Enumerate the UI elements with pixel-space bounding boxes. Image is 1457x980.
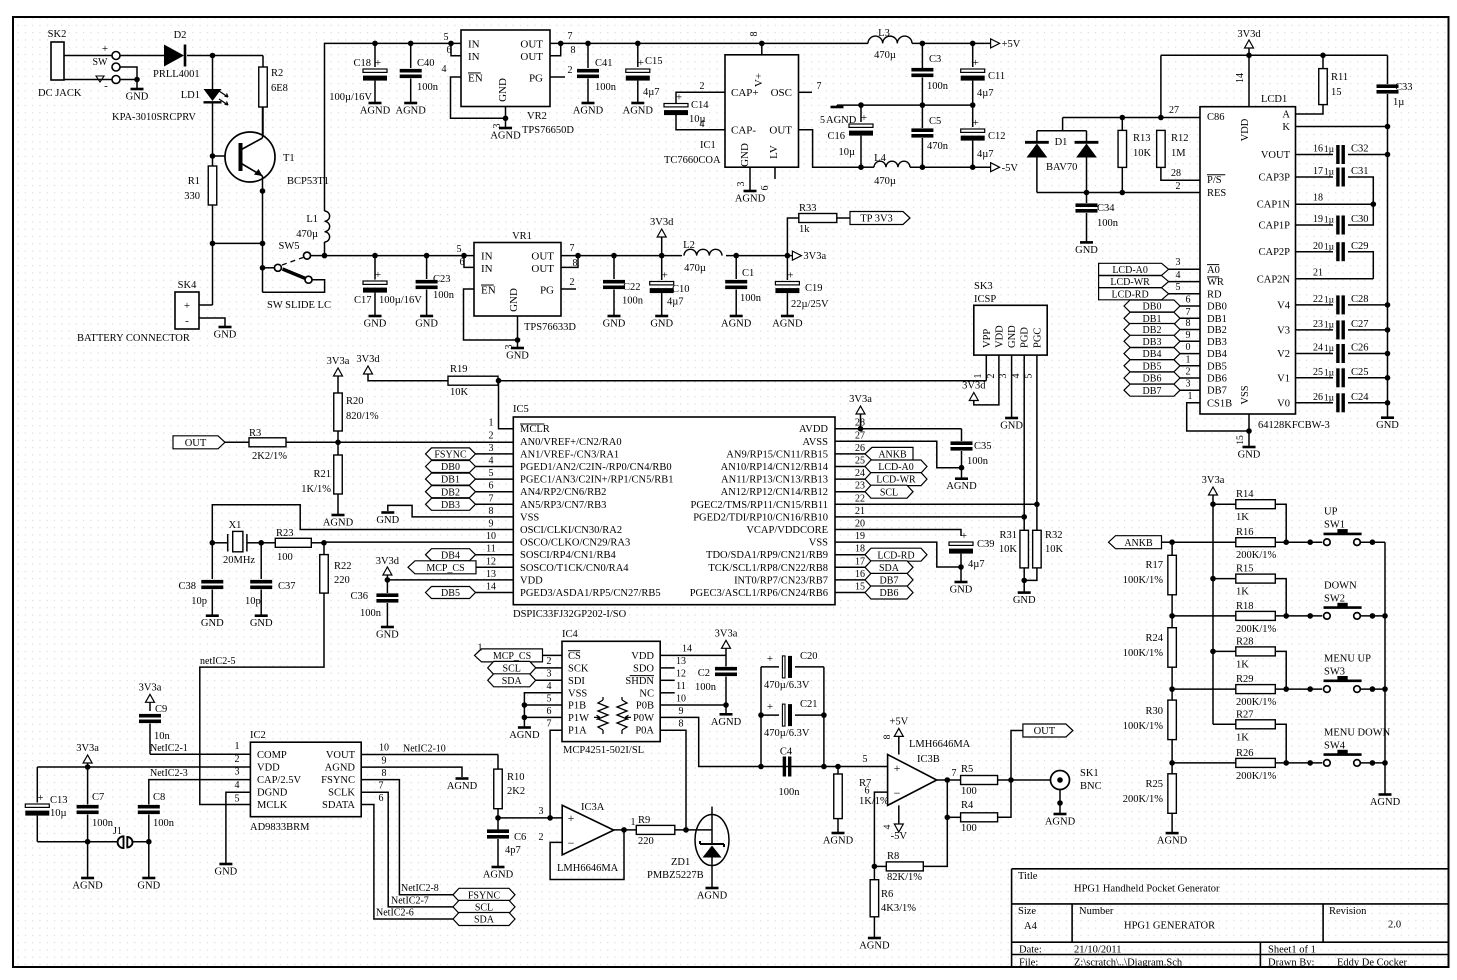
- svg-text:MCP_CS: MCP_CS: [426, 563, 464, 574]
- svg-text:R9: R9: [638, 815, 650, 826]
- svg-text:1µ: 1µ: [1324, 369, 1335, 379]
- wire SK3 pin1 VPP: [985, 355, 987, 381]
- svg-text:2: 2: [700, 81, 705, 92]
- svg-text:LCD-WR: LCD-WR: [1110, 277, 1150, 288]
- transistor T1 BCP53T1: [225, 132, 275, 182]
- svg-text:NetIC2-10: NetIC2-10: [403, 744, 446, 755]
- power flag 3V3a C9: [146, 694, 155, 702]
- svg-text:+: +: [973, 57, 979, 69]
- resistor R26 200K: [1172, 762, 1236, 764]
- svg-text:3V3a: 3V3a: [849, 394, 872, 405]
- svg-text:6: 6: [489, 481, 494, 492]
- svg-text:1K: 1K: [1236, 587, 1249, 598]
- ground C6: [492, 866, 505, 869]
- svg-text:10: 10: [379, 743, 389, 754]
- svg-text:1K/1%: 1K/1%: [301, 484, 331, 495]
- svg-text:2: 2: [568, 65, 573, 76]
- ground C22: [608, 315, 621, 318]
- wire SW4 to AGND rail: [1360, 762, 1385, 764]
- svg-text:8: 8: [1186, 318, 1191, 329]
- svg-text:R23: R23: [276, 528, 294, 539]
- resistor R14 1K: [1213, 503, 1236, 505]
- svg-text:26: 26: [855, 443, 865, 454]
- wire SW2 to AGND rail: [1360, 615, 1385, 617]
- svg-text:4µ7: 4µ7: [667, 297, 684, 308]
- svg-text:L1: L1: [306, 214, 318, 225]
- svg-text:AGND: AGND: [396, 106, 427, 117]
- svg-text:15: 15: [1236, 435, 1246, 445]
- svg-text:21: 21: [855, 506, 865, 517]
- wire VR1 GND pin3: [517, 316, 519, 348]
- capacitor C40: [408, 41, 414, 47]
- svg-text:COMP: COMP: [257, 750, 287, 761]
- svg-text:1: 1: [478, 643, 483, 654]
- flag ANKB keypad: [1109, 536, 1162, 549]
- jumper J1: [88, 841, 118, 843]
- resistor R11: [1319, 69, 1328, 105]
- ground IC4 VSS: [518, 726, 531, 729]
- svg-text:DB1: DB1: [441, 475, 460, 486]
- capacitor C34: [1086, 193, 1088, 204]
- svg-text:2: 2: [570, 277, 575, 288]
- op-amp IC3A LMH6646MA: [562, 805, 614, 855]
- svg-text:16: 16: [855, 569, 865, 580]
- svg-text:10K: 10K: [999, 544, 1018, 555]
- ground IC2 AGND: [456, 777, 469, 780]
- svg-text:DB4: DB4: [441, 550, 460, 561]
- flag SDA IC4: [488, 674, 536, 687]
- svg-text:0: 0: [1186, 342, 1191, 353]
- svg-text:18: 18: [1313, 193, 1323, 204]
- svg-text:C39: C39: [977, 539, 995, 550]
- resistor R12: [1157, 130, 1166, 167]
- svg-text:100K/1%: 100K/1%: [1123, 721, 1164, 732]
- ground C2: [720, 713, 733, 716]
- resistor R15 1K: [1210, 576, 1216, 582]
- svg-text:OUT: OUT: [769, 125, 792, 137]
- svg-text:File:: File:: [1019, 958, 1038, 969]
- svg-text:SCL: SCL: [503, 664, 521, 675]
- svg-text:TDO/SDA1/RP9/CN21/RB9: TDO/SDA1/RP9/CN21/RB9: [706, 550, 828, 561]
- svg-text:15: 15: [855, 582, 865, 593]
- ground: [219, 326, 232, 329]
- svg-text:C2: C2: [698, 668, 710, 679]
- wire VCAP pin20 to C39: [835, 530, 961, 537]
- flag DB1 to LCD: [1124, 312, 1180, 324]
- svg-text:7: 7: [817, 81, 822, 92]
- wire C31 C30 join: [1348, 177, 1373, 225]
- svg-text:P0B: P0B: [636, 701, 654, 712]
- capacitor C28: [1296, 304, 1334, 306]
- svg-text:OUT: OUT: [531, 263, 554, 275]
- ground R31 R32: [1018, 591, 1031, 594]
- wire VR1 IN pin6: [464, 256, 474, 268]
- svg-text:SDA: SDA: [474, 915, 495, 926]
- svg-text:V2: V2: [1277, 349, 1290, 360]
- flag DB0 IC5: [426, 461, 476, 473]
- svg-text:C32: C32: [1351, 144, 1369, 155]
- svg-text:10p: 10p: [245, 596, 261, 607]
- svg-text:3V3d: 3V3d: [962, 381, 986, 392]
- svg-text:AN1/VREF-/CN3/RA1: AN1/VREF-/CN3/RA1: [520, 449, 619, 460]
- svg-text:DOWN: DOWN: [1324, 580, 1357, 591]
- keypad 3V3a column: [1212, 504, 1214, 724]
- svg-text:MENU UP: MENU UP: [1324, 654, 1371, 665]
- svg-text:100n: 100n: [92, 818, 114, 829]
- svg-text:OUT: OUT: [531, 251, 554, 263]
- svg-text:LCD-RD: LCD-RD: [877, 550, 914, 561]
- svg-text:R16: R16: [1236, 527, 1254, 538]
- wire +3V input rail: [375, 42, 461, 44]
- svg-text:19: 19: [855, 531, 865, 542]
- svg-text:MCLK: MCLK: [257, 800, 288, 811]
- wire FSYNC pin8: [361, 780, 453, 895]
- switch SW3 MENU UP: [1307, 686, 1313, 692]
- svg-text:SW: SW: [93, 57, 109, 68]
- svg-text:VDD: VDD: [631, 651, 654, 662]
- svg-text:T1: T1: [283, 153, 295, 164]
- svg-text:9: 9: [382, 756, 387, 767]
- svg-text:ANKB: ANKB: [1124, 538, 1153, 549]
- svg-text:3: 3: [489, 443, 494, 454]
- svg-text:C20: C20: [800, 651, 818, 662]
- svg-text:10µ: 10µ: [838, 147, 855, 158]
- svg-text:330: 330: [184, 191, 200, 202]
- svg-text:C33: C33: [1395, 82, 1413, 93]
- svg-text:ZD1: ZD1: [671, 857, 690, 868]
- svg-text:AGND: AGND: [859, 941, 890, 952]
- ground C1: [730, 315, 743, 318]
- svg-text:23: 23: [855, 481, 865, 492]
- inductor L2: [684, 249, 722, 255]
- svg-text:14: 14: [682, 644, 692, 655]
- wire VDD pin14 to 3V3a: [660, 654, 726, 656]
- capacitor C5: [921, 105, 923, 128]
- resistor R23: [261, 542, 275, 544]
- capacitor C8: [146, 839, 152, 845]
- wire IC3B V- to -5V: [898, 805, 900, 824]
- svg-text:SCL: SCL: [880, 487, 898, 498]
- power flag +5V: [991, 39, 1000, 48]
- svg-text:4: 4: [442, 64, 447, 75]
- svg-text:MCP4251-502I/SL: MCP4251-502I/SL: [563, 745, 644, 756]
- svg-text:7: 7: [570, 243, 575, 254]
- wire SW3 to AGND rail: [1360, 688, 1385, 690]
- svg-text:C29: C29: [1351, 241, 1369, 252]
- svg-text:10p: 10p: [191, 596, 207, 607]
- svg-text:IC3B: IC3B: [917, 754, 940, 765]
- svg-text:GND: GND: [1000, 421, 1023, 432]
- ground R25: [1166, 832, 1179, 835]
- svg-text:9: 9: [679, 706, 684, 717]
- svg-text:LCD-A0: LCD-A0: [878, 462, 914, 473]
- svg-text:PGC: PGC: [1032, 328, 1043, 348]
- resistor R6: [873, 866, 875, 879]
- svg-text:+: +: [861, 112, 867, 124]
- svg-text:200K/1%: 200K/1%: [1236, 624, 1277, 635]
- wire SW contact to GND: [120, 67, 137, 80]
- svg-text:R2: R2: [271, 68, 283, 79]
- svg-text:4: 4: [235, 780, 240, 791]
- connector SK3 ICSP: [974, 305, 1047, 355]
- svg-text:3V3a: 3V3a: [76, 743, 99, 754]
- svg-text:GND: GND: [1376, 420, 1399, 431]
- svg-text:-5V: -5V: [891, 831, 908, 842]
- svg-text:R31: R31: [999, 530, 1017, 541]
- svg-text:100n: 100n: [360, 608, 382, 619]
- wire R31 R32 to GND: [1023, 568, 1025, 593]
- resistor R8: [874, 865, 886, 867]
- ground IC5 VSS: [381, 511, 394, 514]
- resistor R20: [334, 393, 343, 431]
- svg-text:SW3: SW3: [1324, 667, 1345, 678]
- svg-text:SDO: SDO: [633, 663, 654, 674]
- svg-text:25: 25: [1313, 367, 1323, 378]
- capacitor C25: [1296, 377, 1334, 379]
- flag OUT input: [173, 436, 225, 449]
- svg-text:20MHz: 20MHz: [223, 555, 255, 566]
- svg-text:6E8: 6E8: [271, 83, 288, 94]
- svg-text:AVDD: AVDD: [799, 424, 828, 435]
- ground LCD VSS: [1243, 446, 1256, 449]
- svg-text:IC3A: IC3A: [581, 802, 605, 813]
- svg-text:RD: RD: [1207, 289, 1222, 300]
- svg-text:IC1: IC1: [700, 140, 716, 151]
- svg-text:3V3d: 3V3d: [1237, 29, 1261, 40]
- svg-text:1: 1: [235, 741, 240, 752]
- svg-text:UP: UP: [1324, 507, 1338, 518]
- svg-text:IN: IN: [468, 39, 480, 51]
- svg-text:AGND: AGND: [323, 518, 354, 529]
- wire VR2 OUT pin8: [550, 43, 561, 55]
- svg-text:AGND: AGND: [1370, 797, 1401, 808]
- ground C19: [781, 315, 794, 318]
- svg-text:DC JACK: DC JACK: [38, 88, 82, 99]
- flag DB7 to LCD: [1124, 384, 1180, 396]
- svg-text:VR2: VR2: [527, 111, 547, 122]
- svg-text:VSS: VSS: [1240, 385, 1251, 404]
- capacitor C31: [1296, 176, 1334, 178]
- svg-text:13: 13: [676, 656, 686, 667]
- crystal X1 20MHz: [210, 540, 216, 546]
- svg-text:10K: 10K: [1045, 544, 1064, 555]
- power flag 3V3a VDD rail: [83, 755, 92, 763]
- svg-text:AGND: AGND: [1157, 836, 1188, 847]
- switch SW5 slide: [262, 243, 264, 292]
- svg-text:BCP53T1: BCP53T1: [287, 176, 329, 187]
- svg-text:+5V: +5V: [1002, 39, 1021, 50]
- flag DB2 to LCD: [1124, 324, 1180, 336]
- resistor R33: [787, 218, 798, 256]
- svg-text:C26: C26: [1351, 343, 1369, 354]
- svg-text:P0A: P0A: [635, 726, 654, 737]
- svg-text:OUT: OUT: [1034, 726, 1056, 737]
- wire SDO pin13 stub: [660, 667, 675, 669]
- svg-text:L2: L2: [683, 240, 695, 251]
- svg-text:DB6: DB6: [1207, 374, 1227, 385]
- svg-text:100: 100: [961, 823, 977, 834]
- wire SK1 shield to AGND: [1059, 790, 1061, 815]
- wire AVSS pin27: [835, 441, 962, 467]
- wire SK3 pin3 GND: [1011, 355, 1013, 418]
- wire IC1 LV pin6 stub: [774, 167, 776, 179]
- wire VSS pin8 to GND: [388, 505, 514, 517]
- svg-text:28: 28: [1171, 168, 1181, 179]
- wire IC3B output: [937, 779, 961, 781]
- svg-text:GND: GND: [126, 92, 149, 103]
- RES rail: [1037, 192, 1200, 194]
- svg-text:15: 15: [1331, 87, 1342, 98]
- svg-text:Size: Size: [1018, 906, 1036, 917]
- wire R14 to switch node: [1275, 504, 1286, 542]
- ground AGND C15: [631, 102, 644, 105]
- capacitor C33: [1387, 55, 1389, 84]
- jack switch arrow: [96, 76, 104, 82]
- capacitor C27: [1296, 329, 1334, 331]
- svg-text:100: 100: [277, 552, 293, 563]
- inductor L4: [874, 161, 910, 167]
- svg-text:A: A: [1282, 110, 1290, 121]
- svg-text:GND: GND: [215, 867, 238, 878]
- svg-text:SHDN: SHDN: [625, 676, 654, 687]
- svg-text:C25: C25: [1351, 367, 1369, 378]
- junction SW5 pivot: [260, 265, 266, 271]
- wire DC jack +: [64, 55, 112, 57]
- svg-text:10n: 10n: [154, 731, 171, 742]
- power flag 3V3a: [792, 251, 801, 260]
- flag SDA IC5: [865, 561, 913, 574]
- keypad AGND rail: [1384, 542, 1386, 794]
- svg-text:IC2: IC2: [250, 730, 266, 741]
- svg-text:3: 3: [736, 182, 747, 187]
- svg-text:VDD: VDD: [994, 325, 1005, 348]
- wire LED to base node: [212, 104, 214, 157]
- svg-text:1µ: 1µ: [1324, 242, 1335, 252]
- svg-text:11: 11: [486, 544, 496, 555]
- svg-text:R33: R33: [799, 203, 817, 214]
- svg-text:AGND: AGND: [490, 131, 521, 142]
- svg-text:C30: C30: [1351, 214, 1369, 225]
- svg-text:DB0: DB0: [1143, 302, 1162, 313]
- svg-text:10: 10: [676, 694, 686, 705]
- svg-text:C36: C36: [350, 591, 368, 602]
- svg-text:BNC: BNC: [1080, 781, 1102, 792]
- capacitor C16: [858, 102, 864, 108]
- svg-text:C11: C11: [988, 71, 1005, 82]
- svg-text:VDD: VDD: [257, 763, 280, 774]
- svg-text:CAP-: CAP-: [731, 125, 756, 137]
- svg-text:+: +: [894, 761, 901, 775]
- svg-text:AN4/RP2/CN6/RB2: AN4/RP2/CN6/RB2: [520, 487, 606, 498]
- wire output to R4 node: [946, 780, 948, 817]
- svg-text:PGEC2/TMS/RP11/CN15/RB11: PGEC2/TMS/RP11/CN15/RB11: [690, 500, 828, 511]
- svg-text:CAP2P: CAP2P: [1258, 247, 1290, 258]
- switch SW2 DOWN: [1307, 613, 1313, 619]
- svg-text:4: 4: [1176, 270, 1181, 281]
- svg-text:1µ: 1µ: [1393, 97, 1404, 108]
- svg-text:AN12/RP12/CN14/RB12: AN12/RP12/CN14/RB12: [721, 487, 828, 498]
- svg-text:+5V: +5V: [889, 716, 908, 727]
- svg-text:P1A: P1A: [568, 726, 587, 737]
- svg-text:LCD-A0: LCD-A0: [1112, 265, 1148, 276]
- svg-text:ICSP: ICSP: [974, 294, 996, 305]
- capacitor C13: [36, 767, 38, 803]
- svg-text:SW4: SW4: [1324, 740, 1346, 751]
- svg-text:AGND: AGND: [697, 891, 728, 902]
- svg-text:NetIC2-7: NetIC2-7: [391, 896, 429, 907]
- svg-text:LD1: LD1: [181, 90, 200, 101]
- svg-text:2.0: 2.0: [1388, 920, 1401, 931]
- wire - contact to GND: [120, 79, 137, 81]
- svg-text:LV: LV: [768, 145, 780, 159]
- svg-text:NetIC2-6: NetIC2-6: [376, 908, 414, 919]
- svg-text:100n: 100n: [967, 456, 989, 467]
- svg-text:PGED3/ASDA1/RP5/CN27/RB5: PGED3/ASDA1/RP5/CN27/RB5: [520, 588, 661, 599]
- svg-text:1µ: 1µ: [1324, 296, 1335, 306]
- svg-text:470µ: 470µ: [684, 263, 706, 274]
- svg-text:GND: GND: [376, 630, 399, 641]
- ground C17: [369, 315, 382, 318]
- VPP rail to SK3: [499, 380, 987, 382]
- wire NetIC2-1 pin1: [150, 753, 250, 755]
- svg-text:21/10/2011: 21/10/2011: [1074, 945, 1121, 956]
- resistor R9: [636, 825, 675, 834]
- svg-text:1: 1: [1186, 354, 1191, 365]
- svg-text:AGND: AGND: [360, 106, 391, 117]
- svg-text:470n: 470n: [927, 141, 949, 152]
- svg-text:MCLR: MCLR: [520, 424, 550, 435]
- svg-text:4p7: 4p7: [505, 845, 521, 856]
- wire P1W pin6: [524, 716, 562, 718]
- svg-text:DB4: DB4: [1143, 349, 1162, 360]
- svg-text:C16: C16: [827, 131, 845, 142]
- svg-text:2: 2: [986, 374, 997, 379]
- svg-text:21: 21: [1313, 268, 1323, 279]
- svg-text:PGED2/TDI/RP10/CN16/RB10: PGED2/TDI/RP10/CN16/RB10: [693, 512, 828, 523]
- resistor R28 1K: [1210, 649, 1216, 655]
- diode D2: [164, 45, 184, 67]
- svg-text:FSYNC: FSYNC: [468, 890, 501, 901]
- svg-text:NetIC2-1: NetIC2-1: [150, 743, 188, 754]
- svg-text:A0: A0: [1207, 265, 1220, 276]
- ground C23: [420, 315, 433, 318]
- svg-text:TCK/SCL1/RP8/CN22/RB8: TCK/SCL1/RP8/CN22/RB8: [708, 563, 828, 574]
- ground C36: [381, 626, 394, 629]
- svg-text:13: 13: [486, 569, 496, 580]
- capacitor C38: [211, 543, 213, 579]
- capacitor C41: [585, 41, 591, 47]
- svg-text:DB3: DB3: [441, 500, 460, 511]
- flag LCD-RD: [1099, 288, 1169, 300]
- svg-text:C22: C22: [623, 282, 641, 293]
- svg-text:+: +: [375, 57, 381, 69]
- svg-text:8: 8: [489, 506, 494, 517]
- flag SCL IC5: [865, 485, 913, 498]
- svg-text:GND: GND: [137, 881, 160, 892]
- svg-text:GND: GND: [1013, 595, 1036, 606]
- wire VR1 OUT pin7: [561, 255, 614, 257]
- svg-text:VDD: VDD: [1240, 118, 1251, 141]
- ground ZD1: [706, 887, 719, 890]
- capacitor C39: [949, 542, 973, 545]
- capacitor C17: [372, 253, 378, 259]
- svg-text:C1: C1: [742, 268, 754, 279]
- svg-text:3: 3: [998, 374, 1009, 379]
- power flag 3V3a R20: [334, 368, 343, 376]
- svg-text:R29: R29: [1236, 674, 1254, 685]
- resistor R7: [835, 764, 841, 770]
- ground 5AGND: [831, 106, 844, 109]
